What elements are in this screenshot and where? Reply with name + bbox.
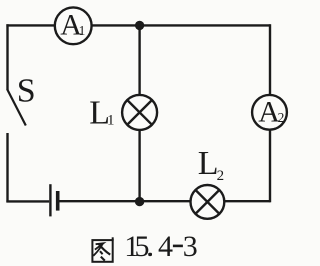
node: bottom junction dot [135,197,144,206]
wire: left upper vertical (top corner down to switch pivot) [6,24,8,90]
battery long plate (+) [49,184,51,216]
lamp L2 cross [195,190,219,214]
wire: right branch vertical [269,24,271,202]
svg-text:2: 2 [278,110,285,125]
svg-text:1: 1 [79,23,86,38]
lamp L1 circle [122,95,157,130]
wire: left lower vertical (switch lower contact down to bottom wire) [6,133,8,202]
wire: bottom left segment (to battery) [6,200,49,202]
ammeter A1 circle [55,7,92,44]
svg-text:1: 1 [107,112,115,128]
ammeter A2 circle [252,95,287,130]
lamp L2 circle [191,185,225,219]
caption: character 图 drawn as strokes [92,237,112,262]
svg-text:3: 3 [183,230,198,263]
wire: top horizontal from left corner to right corner [6,24,270,26]
svg-text:L: L [198,145,219,182]
wire: middle branch vertical (top node to bottom node) [138,25,140,201]
wire: bottom middle and right segment (battery to right corner) [60,200,271,202]
svg-text:5: 5 [135,230,150,263]
lamp L1 cross [127,100,152,125]
node: top junction dot [135,21,144,30]
svg-text:S: S [17,73,36,110]
svg-text:4: 4 [158,230,173,263]
switch S blade (open) [7,89,26,125]
caption: figure number 15.4-3 [124,230,198,263]
battery short plate (-) [56,191,60,211]
svg-text:2: 2 [217,168,225,184]
